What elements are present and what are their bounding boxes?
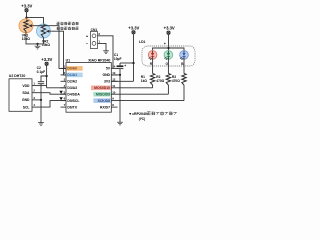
label U1	[66, 58, 71, 62]
pin 13 GND	[102, 71, 117, 77]
svg-text:VDD: VDD	[22, 84, 30, 88]
node VR ground junction	[36, 43, 38, 46]
wire GND row	[38, 99, 41, 101]
svg-text:GND: GND	[102, 73, 110, 77]
LED B of LD1	[180, 51, 189, 74]
label G	[165, 62, 168, 66]
LED G of LD1	[164, 51, 173, 74]
svg-text:SDA: SDA	[22, 91, 30, 95]
wire MOSI/D10 to R1	[118, 87, 153, 89]
label R	[150, 62, 153, 66]
label VR1 10k	[22, 34, 31, 42]
pin 14 5V	[106, 65, 118, 71]
pin 4 D3/A3	[61, 84, 78, 90]
wire VR2 bottom	[38, 38, 44, 44]
svg-text:D4/SDA: D4/SDA	[67, 92, 80, 96]
label C2	[37, 66, 46, 74]
svg-text:CN1: CN1	[91, 28, 98, 32]
svg-text:+3.3V: +3.3V	[164, 25, 175, 30]
wire VDD branch	[38, 85, 47, 87]
pin SCL	[23, 103, 38, 109]
connector CN1 body	[90, 32, 97, 49]
pin 8 RX/D7	[100, 103, 118, 109]
potentiometer VR1	[24, 20, 34, 32]
svg-text:▼=RP2040: ▼=RP2040	[128, 112, 147, 116]
potentiometer VR2 highlight	[37, 24, 51, 38]
label VR2 10k	[42, 39, 51, 47]
label CN1	[91, 28, 98, 32]
pin 12 3V3	[104, 77, 118, 83]
node C1 gnd junction	[119, 74, 121, 122]
svg-text:+3.3V: +3.3V	[128, 25, 139, 30]
wire 3V3 pin to rail	[111, 80, 133, 82]
note internal pullup (I2C)	[128, 112, 177, 121]
svg-text:D6/TX: D6/TX	[67, 105, 77, 109]
svg-text:10: 10	[112, 90, 116, 94]
pin 1 number CN1	[98, 40, 100, 44]
label B	[181, 62, 184, 66]
svg-text:5V: 5V	[106, 67, 111, 71]
potentiometer VR2	[41, 25, 51, 38]
wire CN1 pin1 to ground	[98, 43, 107, 50]
svg-text:470Ω: 470Ω	[172, 79, 180, 83]
svg-text:10µF: 10µF	[114, 57, 122, 61]
node rail-C1 junction	[132, 62, 134, 64]
pin 5 D4/SDA	[61, 90, 81, 96]
svg-text:+3.3V: +3.3V	[41, 57, 52, 62]
label LD1	[139, 40, 146, 44]
svg-text:SCL: SCL	[23, 105, 30, 109]
pin 3 D2/A2	[61, 77, 78, 83]
pin 7 D6/TX	[61, 103, 78, 109]
pullup marker SDA	[59, 91, 62, 94]
module LD1 dashed outline	[142, 46, 195, 66]
wire GND pin 13	[111, 74, 120, 76]
wire SCL to D5/SCL	[38, 101, 66, 108]
svg-text:470Ω: 470Ω	[156, 79, 164, 83]
resistor R2	[166, 74, 170, 95]
ground (VR divider)	[35, 46, 41, 49]
svg-text:U1: U1	[66, 58, 71, 62]
pin 11 MOSI/D10	[91, 84, 118, 90]
svg-text:12: 12	[112, 77, 116, 81]
svg-text:RX/D7: RX/D7	[100, 105, 110, 109]
wire VR1 wiper to D0/A0	[34, 26, 66, 69]
label CN1 minus	[86, 41, 89, 46]
label XIAO RP2040	[88, 58, 110, 62]
capacitor C2	[38, 82, 44, 100]
svg-text:(I²C): (I²C)	[139, 117, 145, 121]
label cold-point reference adjust	[57, 27, 79, 30]
label CN1 plus	[86, 33, 89, 38]
mcu U1 XIAO RP2040 body	[66, 63, 111, 113]
svg-text:U2 DHT20: U2 DHT20	[9, 74, 26, 78]
capacitor C1 polarized	[117, 63, 127, 75]
wire LED anode rail	[153, 48, 184, 51]
pullup marker SCL	[59, 97, 62, 100]
power +3.3V (LED anode)	[164, 25, 175, 48]
svg-text:13: 13	[112, 71, 116, 75]
wire CN1 pin2 to 5V	[98, 36, 114, 69]
sensor U2 DHT20 body	[9, 79, 32, 112]
pin 2 D1/A1	[61, 71, 83, 77]
svg-text:1kΩ: 1kΩ	[141, 79, 148, 83]
label R3 470	[172, 75, 180, 83]
resistor R3	[182, 74, 186, 101]
pin 1 D0/A0	[61, 65, 83, 71]
svg-text:LD1: LD1	[139, 40, 146, 44]
wire VR1 bottom	[26, 32, 38, 44]
wire SCK/D8 to R3	[118, 100, 185, 102]
label warm-point reference adjust	[57, 22, 79, 25]
node DHT20 supply junction	[45, 75, 47, 77]
svg-text:D0/A0: D0/A0	[67, 67, 77, 71]
pin VDD	[22, 82, 38, 88]
node anode junction	[167, 47, 169, 49]
svg-text:+: +	[124, 64, 126, 68]
svg-text:14: 14	[112, 65, 116, 69]
svg-text:G: G	[165, 62, 168, 66]
node DHT20 gnd junction	[40, 99, 42, 123]
wire SDA to D4/SDA	[38, 93, 66, 95]
svg-text:MOSI/D10: MOSI/D10	[94, 86, 110, 90]
svg-text:SCK/D8: SCK/D8	[98, 99, 111, 103]
resistor R1	[150, 74, 154, 88]
label U2 DHT20	[9, 74, 26, 78]
svg-text:MISO/D9: MISO/D9	[96, 92, 110, 96]
ground (DHT20)	[38, 123, 44, 126]
pin GND	[22, 96, 38, 102]
svg-text:D3/A3: D3/A3	[67, 86, 77, 90]
pin 2 number CN1	[98, 32, 100, 36]
wire MISO/D9 to R2	[118, 93, 169, 95]
ground (CN1)	[103, 51, 109, 54]
label R2 470	[156, 75, 164, 83]
label R1 1k	[141, 75, 148, 83]
svg-text:D2/A2: D2/A2	[67, 80, 77, 84]
label LED anode plus	[164, 42, 167, 46]
svg-text:XIAO RP2040: XIAO RP2040	[88, 58, 110, 62]
wire D3/A3 branch	[47, 87, 66, 89]
wire C1 top to rail	[120, 62, 134, 64]
svg-text:GND: GND	[22, 98, 30, 102]
svg-text:11: 11	[112, 84, 115, 88]
power +3.3V (DHT20)	[41, 57, 52, 88]
svg-text:+3.3V: +3.3V	[21, 3, 32, 8]
LED R of LD1	[148, 51, 157, 74]
pin 9 SCK/D8	[93, 97, 117, 103]
pin 6 D5/SCL	[61, 97, 80, 103]
node +3.3V junction	[25, 16, 27, 18]
pin 10 MISO/D9	[93, 90, 117, 96]
wire to C2	[41, 76, 47, 81]
svg-text:D1/A1: D1/A1	[67, 73, 77, 77]
label C1	[114, 53, 122, 61]
wire +3.3V rail to VR2 top	[27, 18, 44, 25]
ground (MCU)	[117, 122, 123, 125]
wire VR2 wiper to D1/A1	[51, 31, 66, 75]
potentiometer VR1 highlight	[19, 19, 33, 33]
svg-text:0.1µF: 0.1µF	[37, 70, 46, 74]
pin SDA	[22, 89, 38, 95]
power +3.3V (VR rail)	[21, 3, 32, 20]
svg-text:3V3: 3V3	[104, 80, 110, 84]
power +3.3V (MCU rail)	[128, 25, 139, 81]
svg-text:D5/SCL: D5/SCL	[67, 99, 79, 103]
